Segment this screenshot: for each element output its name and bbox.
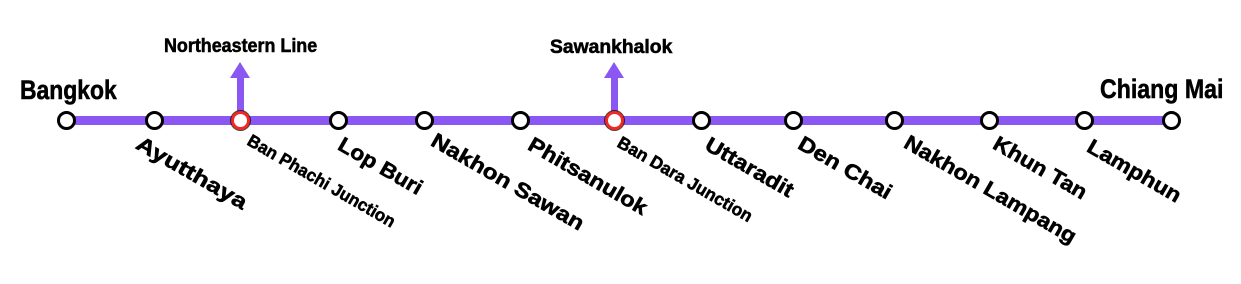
label Lop Buri [334,134,425,199]
label Den Chai [794,133,895,203]
station Nakhon Lampang [885,111,904,130]
station Lamphun [1075,111,1094,130]
station Nakhon Sawan [415,111,434,130]
label Khun Tan [990,133,1091,203]
label Ban Dara Junction [615,134,756,226]
label Nakhon Sawan [428,130,588,235]
station Bangkok [57,111,76,130]
label Lamphun [1083,136,1184,207]
station Ban Dara Junction [605,111,624,130]
branch line/arrow to Sawankhalok [611,78,618,121]
label Phitsanulok [525,134,651,219]
label Northeastern Line [164,37,317,57]
main line Bangkok to Chiang Mai [66,116,1171,126]
station Khun Tan [980,111,999,130]
branch line/arrow to Northeastern Line [237,78,244,121]
station Phitsanulok [511,111,530,130]
station Ban Phachi Junction [231,111,250,130]
label Sawankhalok [550,38,672,58]
station Uttaradit [692,111,711,130]
label Nakhon Lampang [901,132,1080,248]
label Bangkok [20,77,117,104]
label Chiang Mai [1100,76,1223,103]
station Ayutthaya [145,111,164,130]
label Uttaradit [701,134,797,201]
station Chiang Mai [1162,111,1181,130]
label Ayutthaya [133,133,251,213]
label Ban Phachi Junction [244,132,398,231]
station Lop Buri [329,111,348,130]
station Den Chai [784,111,803,130]
